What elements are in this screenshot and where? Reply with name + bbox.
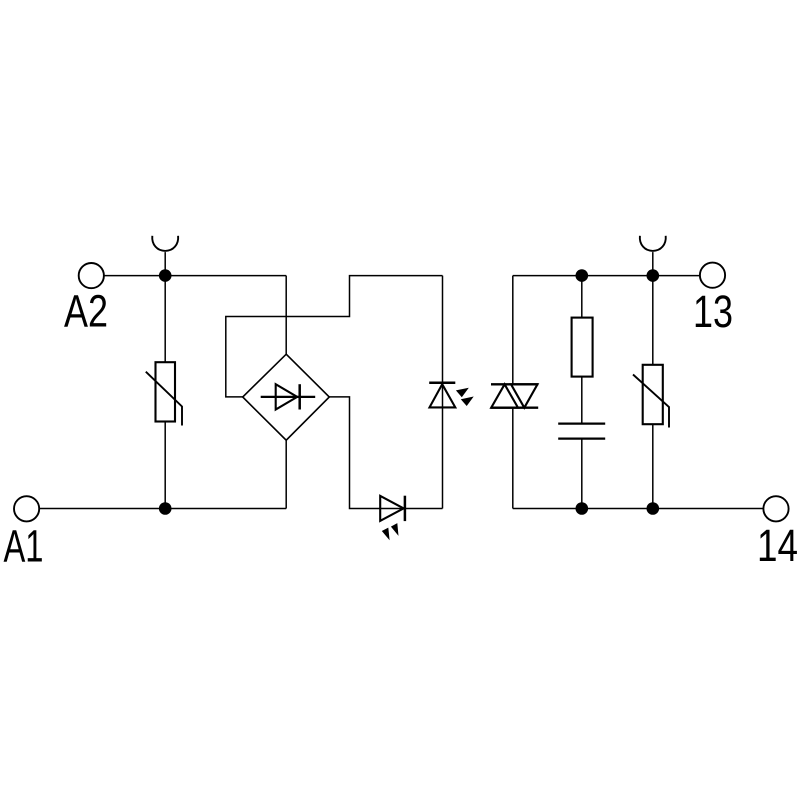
wire bridge top lead [285, 276, 287, 355]
socket arc right [640, 236, 666, 251]
bridge inner diode line [261, 396, 316, 398]
LED D2 cathode bar [404, 496, 407, 521]
capacitor C1 bottom plate [558, 438, 605, 440]
bridge inner diode cathode bar [298, 384, 301, 409]
bridge rectifier V1 diamond [243, 354, 330, 440]
wire output bottom horizontal [513, 508, 764, 510]
LED D1 emission arrow a [456, 388, 469, 398]
wire bridge left corner [226, 276, 443, 397]
wire A2 top horizontal [104, 275, 286, 277]
svg-text:A2: A2 [64, 286, 108, 337]
wire varistor R1 top lead [164, 276, 166, 363]
terminal A1 [14, 496, 39, 521]
node junction A1 [159, 502, 172, 515]
LED D2 triangle [380, 496, 403, 521]
triac Q1 top bar [491, 383, 538, 385]
LED D2 emission arrow b [391, 523, 399, 536]
resistor R2 body [572, 318, 593, 377]
socket arc left [152, 236, 178, 251]
triac Q1 bottom bar [491, 407, 539, 409]
capacitor C1 top plate [558, 423, 605, 425]
wire varistor R3 bottom lead [652, 424, 654, 508]
node junction A2 [159, 269, 172, 282]
varistor R1 strike [146, 372, 182, 426]
svg-text:A1: A1 [4, 521, 44, 572]
bridge inner diode triangle [276, 384, 298, 409]
terminal 14 [763, 496, 788, 521]
LED D1 triangle [430, 384, 456, 407]
svg-text:13: 13 [693, 286, 733, 337]
terminal A2 [79, 263, 104, 288]
wire LED D1 bottom lead [442, 407, 444, 508]
varistor R3 body [643, 365, 663, 424]
wire varistor R1 bottom lead [164, 422, 166, 509]
LED D2 emission arrow a [382, 528, 390, 541]
wire triac bottom lead [512, 408, 514, 509]
triac Q1 left triangle [491, 384, 518, 407]
wire output top horizontal [513, 275, 700, 277]
wire bridge bottom lead [285, 440, 287, 508]
wire capacitor C1 bottom lead [581, 439, 583, 509]
wire LED D1 top lead [442, 276, 444, 408]
wire arc-right stem [652, 252, 654, 276]
varistor R3 strike [633, 375, 669, 428]
LED D1 emission arrow b [461, 397, 474, 407]
wire resistor R2 to capacitor C1 [581, 377, 583, 424]
node junction varistor R3 bottom [647, 502, 660, 515]
varistor R1 body [156, 362, 176, 421]
terminal 13 [700, 263, 725, 288]
node junction R2 top [576, 269, 589, 282]
wire varistor R3 top lead [652, 276, 654, 365]
wire bridge right corner [329, 397, 442, 509]
triac Q1 right triangle [511, 384, 538, 407]
wire resistor R2 top lead [581, 276, 583, 318]
wire triac top lead [512, 276, 514, 385]
LED D1 cathode bar [429, 382, 455, 385]
wire A1 bottom horizontal [39, 508, 286, 510]
svg-text:14: 14 [757, 520, 798, 571]
wire arc-left stem [164, 252, 166, 276]
node junction C1 bottom [576, 502, 589, 515]
node junction varistor R3 top [647, 269, 660, 282]
